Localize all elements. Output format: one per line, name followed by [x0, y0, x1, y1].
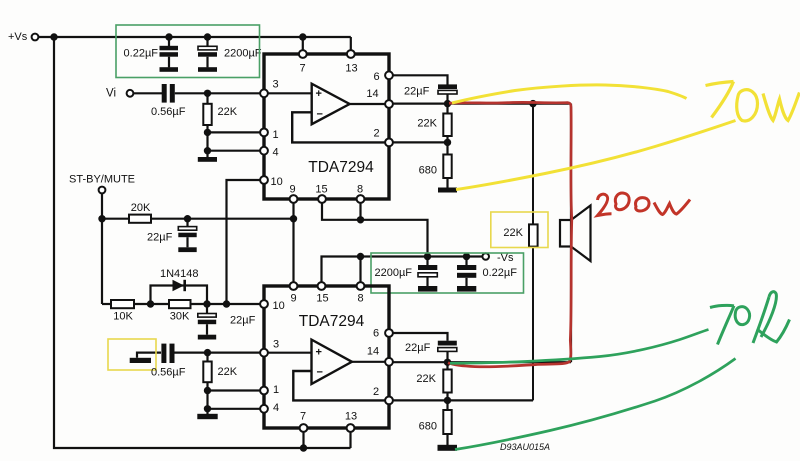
wire to pin1 [208, 131, 261, 133]
svg-text:2200µF: 2200µF [375, 267, 413, 279]
svg-text:6: 6 [373, 71, 379, 83]
svg-text:10K: 10K [113, 311, 133, 323]
node output A junction [444, 100, 451, 107]
pin 6 U2 [373, 328, 393, 340]
resistor R10 680 U2 [419, 410, 457, 451]
svg-text:22K: 22K [503, 227, 523, 239]
svg-text:680: 680 [419, 420, 437, 432]
svg-text:8: 8 [357, 184, 363, 196]
node junction +Vs left [50, 33, 57, 40]
yellow marker leader to 680 ground [456, 121, 736, 190]
svg-text:1N4148: 1N4148 [160, 268, 199, 280]
pin 1 U2 [260, 384, 279, 396]
node stby cap junction [184, 215, 191, 222]
resistor R1 22K input [203, 93, 237, 132]
op-amp U1 TDA7294 body [264, 54, 389, 199]
pin 13 U2 [345, 410, 357, 432]
svg-text:+: + [316, 347, 322, 359]
resistor R9 22K feedback U2 [416, 362, 451, 410]
wire pin3 U2 to +in [264, 352, 312, 354]
op-amp U1 triangle [312, 84, 350, 125]
svg-text:22µF: 22µF [230, 315, 256, 327]
node Vi terminal [106, 88, 133, 100]
wire down to pin4 node [206, 132, 208, 150]
pin 7 U1 [299, 50, 307, 74]
capacitor C6 22uF mute [198, 304, 256, 340]
pin 2 U1 [373, 127, 392, 146]
pin 13 U1 [345, 50, 357, 74]
pin 15 U2 [316, 282, 328, 304]
svg-text:22K: 22K [416, 373, 436, 385]
pin 2 U2 [373, 386, 393, 405]
svg-text:1: 1 [273, 129, 279, 141]
svg-text:−: − [317, 109, 323, 121]
green marker leader to output node B [450, 330, 709, 364]
ground input network U2 [197, 409, 217, 419]
pin 4 U1 [260, 146, 279, 158]
wire C3 to pin3 [175, 92, 261, 94]
wire Vi to C3 [134, 92, 163, 94]
resistor R5 20K [129, 202, 151, 223]
svg-text:3: 3 [273, 338, 279, 350]
capacitor C4 22uF bootstrap U1 [404, 84, 457, 103]
svg-text:4: 4 [273, 402, 279, 414]
wire 20K to pin9 chain [151, 218, 294, 220]
wire speaker top lead [570, 104, 572, 220]
red marker text 200w [598, 193, 691, 215]
red marker trace bridge output loop [448, 102, 572, 366]
pin 1 U1 [260, 129, 279, 141]
node ST-BY/MUTE terminal [69, 174, 135, 194]
svg-text:TDA7294: TDA7294 [308, 159, 374, 176]
yellow marker leader to output node [452, 85, 687, 103]
resistor R2 22K feedback U1 [417, 104, 451, 155]
wire stby vertical [101, 193, 103, 304]
ground input network IC1 [198, 151, 217, 162]
svg-text:TDA7294: TDA7294 [299, 313, 365, 330]
node +Vs terminal [8, 31, 38, 43]
wire pin8 U1 stub [359, 203, 361, 220]
yellow highlight box bridge resistor [491, 212, 548, 248]
pin 3 U2 [260, 338, 279, 356]
node 0.22uF -Vs junction [463, 253, 470, 260]
svg-text:22K: 22K [218, 366, 238, 378]
green highlight box supply caps [116, 25, 260, 78]
svg-text:2: 2 [373, 127, 379, 139]
diode D1 1N4148 branch [151, 268, 208, 304]
wire C9 to pin3 U2 [175, 352, 261, 354]
wire mute row [102, 303, 111, 305]
node bottom rail junction [300, 444, 307, 451]
pin 3 U1 [260, 79, 279, 98]
wire pin10 U1 riser [227, 180, 261, 304]
svg-text:0.56µF: 0.56µF [151, 366, 186, 378]
node pin9 wire junction [290, 215, 297, 222]
svg-text:22µF: 22µF [405, 342, 431, 354]
svg-text:7: 7 [299, 62, 305, 74]
pin 6 U1 [373, 71, 392, 83]
wire out U2 to pin14 [352, 361, 389, 363]
svg-text:22µF: 22µF [147, 231, 173, 243]
node -Vs terminal [482, 252, 514, 264]
svg-text:2: 2 [373, 386, 379, 398]
capacitor C10 22uF bootstrap U2 [405, 341, 457, 363]
wire bridge resistor chain vertical [532, 104, 534, 401]
svg-text:680: 680 [419, 165, 437, 177]
speaker LS1 [560, 206, 591, 262]
svg-text:7: 7 [300, 410, 306, 422]
pin 10 U2 [260, 300, 285, 312]
node junction pin1 [204, 129, 211, 136]
pin 10 U1 [260, 176, 283, 188]
node feedback junction U2 [444, 397, 451, 404]
svg-text:0.22µF: 0.22µF [124, 48, 159, 60]
svg-text:9: 9 [290, 292, 296, 304]
wire 30K to pin10 U2 [191, 303, 261, 305]
svg-text:−: − [317, 367, 323, 379]
svg-text:30K: 30K [170, 311, 190, 323]
svg-text:1: 1 [273, 384, 279, 396]
wire stby to 20K [102, 218, 129, 220]
svg-text:22K: 22K [218, 106, 238, 118]
svg-text:10: 10 [273, 300, 285, 312]
op-amp U2 TDA7294 body [264, 286, 389, 428]
wire IC2 pin13 feed [349, 432, 351, 449]
node junction pin7 feed [299, 33, 306, 40]
node bridge tap junction [529, 100, 536, 107]
wire feedback U1 [292, 112, 389, 142]
svg-text:15: 15 [315, 184, 327, 196]
op-amp U2 triangle [312, 340, 352, 384]
wire pin6 U2 to bootstrap cap [393, 333, 448, 341]
svg-text:6: 6 [373, 328, 379, 340]
wire pin3 to +in [264, 92, 312, 94]
pin 9 U2 [290, 282, 298, 304]
node output B junction [444, 359, 451, 366]
green marker leader to 680 ground U2 [455, 359, 736, 450]
svg-text:10: 10 [271, 176, 283, 188]
capacitor C3 0.56uF input [151, 84, 186, 118]
node junction pin1 U2 [204, 387, 211, 394]
svg-text:22K: 22K [417, 117, 437, 129]
resistor R3 680 U1 [419, 155, 457, 193]
wire pin9 U1 to pin9 U2 [292, 203, 294, 283]
ground grounded input U2 [130, 353, 161, 363]
yellow highlight box grounded input [108, 339, 156, 370]
pin 4 U2 [260, 402, 279, 414]
green highlight box -Vs caps [371, 253, 524, 293]
pin 14 U2 [367, 346, 393, 366]
wire to pin1 U2 [208, 389, 261, 391]
wire pin2 U2 to bridge chain [393, 399, 533, 401]
capacitor C1 0.22uF supply [124, 37, 178, 72]
capacitor C5 22uF stby [147, 219, 197, 252]
svg-text:+: + [316, 88, 322, 100]
wire pins 15 8 U1 to -Vs [322, 203, 428, 257]
svg-text:3: 3 [273, 79, 279, 91]
node stby junction [98, 215, 105, 222]
wire feedback U2 [293, 371, 389, 400]
resistor R6 10K [111, 300, 134, 323]
wire left rail down [54, 37, 351, 448]
svg-text:2200µF: 2200µF [224, 48, 262, 60]
svg-text:D93AU015A: D93AU015A [500, 442, 550, 452]
node pin8 U2 junction [357, 253, 364, 260]
wire -Vs rail [322, 257, 483, 283]
resistor R7 30K [169, 300, 191, 323]
svg-text:20K: 20K [131, 202, 151, 214]
wire IC2 pin7 feed [302, 432, 304, 449]
svg-text:14: 14 [366, 88, 378, 100]
svg-text:14: 14 [367, 346, 379, 358]
capacitor C9 0.56uF input U2 [151, 344, 186, 379]
wire speaker bottom lead [570, 247, 572, 363]
green marker text 70K [710, 292, 790, 345]
wire pin6 U1 to bootstrap cap [393, 75, 448, 84]
svg-text:+Vs: +Vs [8, 31, 28, 43]
node junction pin4 U2 [204, 405, 211, 412]
node junction C1 top [165, 33, 172, 40]
wire IC1 pin13 feed [350, 37, 352, 51]
wire pin14 U2 output to speaker bottom lead [393, 361, 571, 363]
svg-text:22µF: 22µF [404, 85, 430, 97]
resistor R4 22K bridge [503, 224, 537, 246]
pin 9 U1 [289, 184, 297, 203]
resistor R8 22K input U2 [203, 353, 237, 391]
wire pin2 U1 to feedback node [393, 141, 448, 143]
svg-text:8: 8 [357, 292, 363, 304]
yellow marker text 70W [706, 82, 800, 121]
wire down to pin4 node U2 [206, 391, 208, 409]
svg-text:Vi: Vi [106, 88, 116, 100]
wire to pin4 [208, 150, 261, 152]
wire 10K to 30K [134, 303, 169, 305]
node pin10 riser junction [223, 300, 230, 307]
node junction pin4 [204, 147, 211, 154]
wire out to pin14 [350, 103, 389, 105]
capacitor C8 0.22uF -Vs [457, 257, 517, 292]
pin 8 U2 [357, 282, 365, 304]
svg-text:13: 13 [345, 62, 357, 74]
wire to pin4 U2 [208, 408, 261, 410]
node feedback junction U1 [444, 139, 451, 146]
wire IC1 pin7 feed [302, 37, 304, 51]
wire +Vs top rail [39, 36, 351, 38]
wire pin8 U2 stub [359, 257, 361, 283]
node junction C2 top [204, 33, 211, 40]
svg-text:0.56µF: 0.56µF [151, 106, 186, 118]
capacitor C2 2200uF supply [198, 37, 262, 72]
node diode left junction [147, 300, 154, 307]
pin 7 U2 [300, 410, 308, 432]
node mute cap junction [203, 300, 210, 307]
pin 14 U1 [366, 88, 393, 108]
svg-text:0.22µF: 0.22µF [483, 267, 518, 279]
pin 15 U1 [315, 184, 327, 203]
svg-text:13: 13 [345, 410, 357, 422]
capacitor C7 2200uF -Vs [375, 257, 438, 292]
node pin8 U1 junction [357, 216, 364, 223]
node junction input R [204, 90, 211, 97]
svg-text:ST-BY/MUTE: ST-BY/MUTE [69, 174, 135, 186]
node 2200uF -Vs junction [424, 253, 431, 260]
node junction input R U2 [204, 349, 211, 356]
svg-text:4: 4 [273, 146, 279, 158]
svg-text:15: 15 [316, 292, 328, 304]
svg-text:9: 9 [289, 184, 295, 196]
wire pin14 U1 output to speaker top lead [393, 102, 571, 104]
pin 8 U1 [357, 184, 365, 203]
